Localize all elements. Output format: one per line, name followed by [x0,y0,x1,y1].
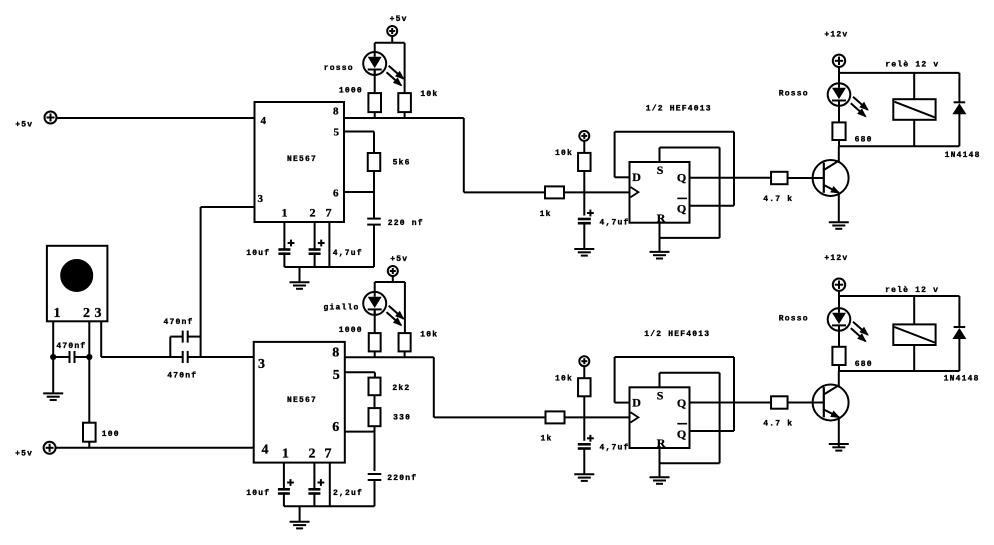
svg-text:2k2: 2k2 [392,384,410,393]
svg-text:1000: 1000 [339,326,363,335]
svg-text:2,2uf: 2,2uf [333,489,363,498]
svg-text:D: D [632,170,641,184]
svg-text:10k: 10k [420,330,438,339]
svg-text:6: 6 [333,188,339,200]
svg-text:10uf: 10uf [246,489,270,498]
svg-text:4.7 k: 4.7 k [763,420,793,429]
svg-text:6: 6 [332,420,339,435]
svg-text:+5v: +5v [15,450,33,459]
svg-text:4: 4 [262,443,269,458]
svg-text:3: 3 [258,357,265,372]
svg-text:Rosso: Rosso [779,90,809,99]
svg-text:1: 1 [282,447,289,462]
svg-text:NE567: NE567 [287,155,317,164]
svg-text:S: S [657,389,664,403]
svg-text:Rosso: Rosso [779,315,809,324]
svg-text:3: 3 [258,193,264,205]
svg-text:1000: 1000 [339,87,363,96]
svg-text:+5v: +5v [15,121,33,130]
svg-text:470nf: 470nf [164,318,194,327]
svg-text:D: D [632,395,641,409]
svg-text:Q: Q [677,202,686,216]
svg-text:4,7uf: 4,7uf [600,444,630,453]
svg-text:1/2 HEF4013: 1/2 HEF4013 [646,105,712,114]
svg-text:8: 8 [332,346,339,361]
svg-text:680: 680 [855,360,873,369]
svg-text:Q: Q [677,427,686,441]
svg-text:rosso: rosso [324,64,354,73]
svg-text:1k: 1k [541,434,553,443]
svg-text:relè 12 v: relè 12 v [885,286,939,295]
svg-text:NE567: NE567 [287,396,317,405]
svg-text:+12v: +12v [824,254,848,263]
svg-text:4.7 k: 4.7 k [763,195,793,204]
svg-text:+12v: +12v [824,30,848,39]
svg-text:5: 5 [334,127,340,139]
svg-text:R: R [657,211,666,225]
svg-text:S: S [657,163,664,177]
svg-text:680: 680 [855,136,873,145]
svg-text:relè 12 v: relè 12 v [885,61,939,70]
svg-text:R: R [657,436,666,450]
svg-text:Q: Q [677,171,686,185]
svg-text:3: 3 [95,306,102,321]
svg-text:4,7uf: 4,7uf [333,249,363,258]
svg-text:1: 1 [282,206,288,220]
svg-text:10k: 10k [555,149,573,158]
svg-text:470nf: 470nf [167,372,197,381]
svg-text:100: 100 [102,430,120,439]
svg-text:10uf: 10uf [246,249,270,258]
svg-text:8: 8 [333,106,339,118]
svg-text:7: 7 [326,206,332,220]
svg-text:4,7uf: 4,7uf [600,218,630,227]
svg-text:1k: 1k [540,210,552,219]
svg-text:220nf: 220nf [387,474,417,483]
svg-text:4: 4 [261,115,267,127]
svg-text:330: 330 [393,414,411,423]
svg-text:1: 1 [54,306,61,321]
svg-text:1N4148: 1N4148 [944,374,980,383]
svg-text:5: 5 [333,368,340,383]
svg-text:10k: 10k [555,374,573,383]
svg-text:2: 2 [309,447,316,462]
svg-text:2: 2 [83,306,90,321]
svg-text:giallo: giallo [324,303,360,312]
svg-text:1N4148: 1N4148 [945,151,981,160]
svg-text:1/2 HEF4013: 1/2 HEF4013 [644,330,710,339]
svg-text:Q: Q [677,396,686,410]
svg-text:5k6: 5k6 [393,159,411,168]
svg-text:470nf: 470nf [56,342,86,351]
svg-text:7: 7 [325,447,332,462]
svg-text:+5v: +5v [390,15,408,24]
svg-text:+5v: +5v [390,255,408,264]
svg-text:2: 2 [310,206,316,220]
svg-text:10k: 10k [420,90,438,99]
svg-text:220 nf: 220 nf [388,219,424,228]
